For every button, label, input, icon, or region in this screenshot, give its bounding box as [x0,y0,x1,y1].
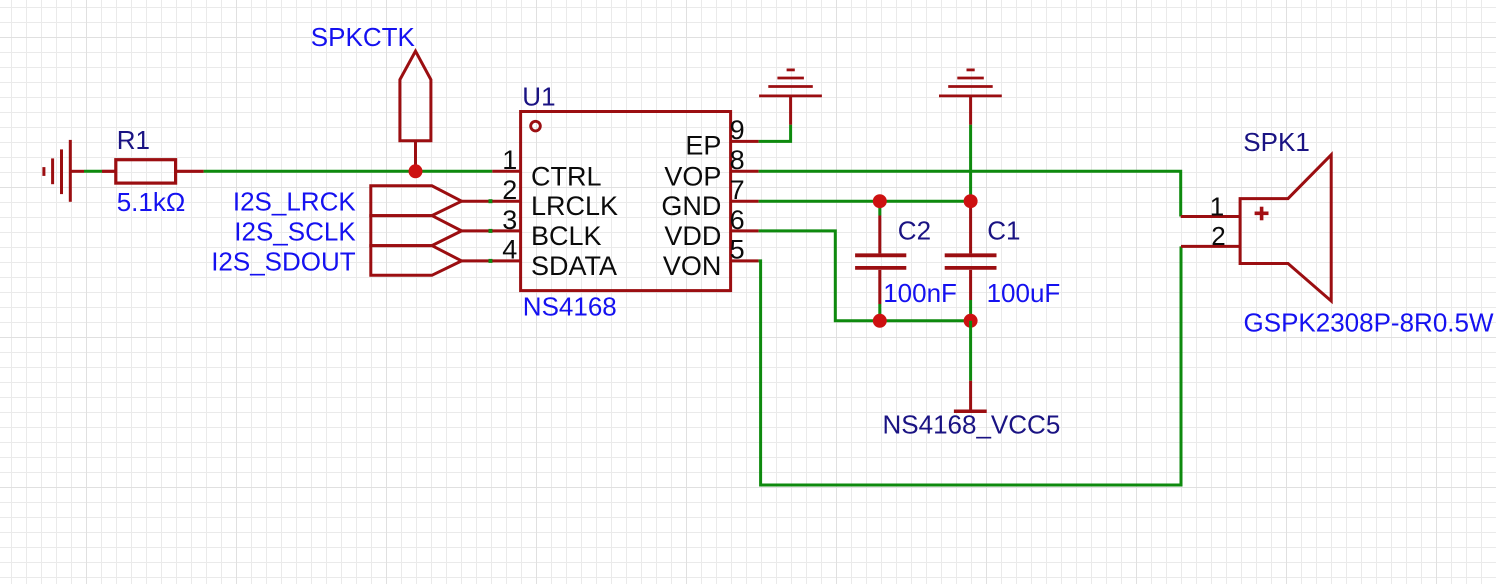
svg-text:VOP: VOP [664,161,721,191]
U1 pin 2 [492,200,520,203]
svg-text:NS4168_VCC5: NS4168_VCC5 [883,410,1061,440]
resistor R1 [102,160,204,183]
junction (SPKCTK / pin1 wire) [409,164,423,178]
U1 pin 8 [731,170,759,173]
svg-text:LRCLK: LRCLK [531,191,618,221]
svg-text:EP: EP [685,131,721,161]
svg-text:U1: U1 [522,82,555,112]
svg-text:BCLK: BCLK [531,221,602,251]
U1 pin 7 [731,200,759,203]
wire (flag tip to pin4) [462,259,493,262]
svg-text:C1: C1 [987,215,1020,245]
U1 pin 4 [492,259,520,262]
wire GND (pin7) [759,200,971,203]
U1 pin 1 [492,170,520,173]
net flag I2S_SDOUT [371,246,462,276]
svg-text:2: 2 [502,175,517,205]
junction (C1 bottom) [964,314,978,328]
svg-text:SPKCTK: SPKCTK [311,22,416,52]
speaker SPK1 body [1240,155,1331,301]
svg-text:5: 5 [730,235,745,265]
svg-text:GSPK2308P-8R0.5W: GSPK2308P-8R0.5W [1244,308,1494,338]
U1 pin 3 [492,229,520,232]
svg-text:1: 1 [502,145,517,175]
wire (flag tip to pin3) [462,229,493,232]
wire (gnd to R1) [84,170,102,173]
net flag SPKCTK [400,51,431,168]
svg-text:9: 9 [730,115,745,145]
svg-text:I2S_LRCK: I2S_LRCK [233,187,356,217]
svg-text:8: 8 [730,145,745,175]
net flag I2S_SCLK [371,216,462,246]
wire VON (pin5) to SPK pin2 [759,246,1181,485]
svg-text:100uF: 100uF [987,278,1061,308]
wire VDD (pin6) [759,231,971,321]
svg-text:I2S_SCLK: I2S_SCLK [234,217,356,247]
svg-text:2: 2 [1211,221,1225,251]
SPK pin 2 [1181,245,1240,248]
SPK pin 1 [1181,215,1240,218]
wire (flag tip to pin2) [462,200,493,203]
wire VOP to SPK pin1 [759,171,1181,216]
wire (R1 to U1 pin1) [204,170,493,173]
SPK plus sign [1255,207,1269,221]
ground GND3 (top, C1) [939,70,1002,125]
capacitor C2 [855,201,906,321]
junction (C2 bottom) [873,314,887,328]
net flag I2S_LRCK [371,186,462,216]
wire EP to GND2 [759,125,791,142]
junction (C2 top) [873,194,887,208]
svg-text:SDATA: SDATA [531,251,617,281]
U1 pin 6 [731,229,759,232]
svg-text:NS4168: NS4168 [523,291,617,321]
svg-text:100nF: 100nF [883,278,957,308]
svg-text:GND: GND [661,191,721,221]
ground GND1 (left signal ground, rotated) [44,140,84,202]
U1 pin 5 [731,259,759,262]
svg-text:3: 3 [502,205,517,235]
pin1 indicator circle [531,121,541,131]
U1 pin 9 [731,140,759,143]
svg-text:5.1kΩ: 5.1kΩ [117,187,186,217]
junction (C1 top) [964,194,978,208]
svg-text:6: 6 [730,205,745,235]
svg-text:CTRL: CTRL [531,161,602,191]
pin end dots (green) [489,199,493,263]
svg-text:4: 4 [502,235,517,265]
wire GND3 down to C1 [969,125,972,201]
svg-text:R1: R1 [117,125,150,155]
svg-text:I2S_SDOUT: I2S_SDOUT [211,247,356,277]
ground GND2 (top, EP) [759,70,822,125]
capacitor C1 [945,205,997,321]
svg-text:VDD: VDD [664,221,721,251]
IC U1 body [521,112,731,291]
svg-text:VON: VON [663,251,722,281]
net port NS4168_VCC5 [969,321,972,381]
svg-text:C2: C2 [898,215,931,245]
svg-text:1: 1 [1210,192,1224,222]
svg-text:7: 7 [730,175,745,205]
svg-text:SPK1: SPK1 [1243,127,1310,157]
